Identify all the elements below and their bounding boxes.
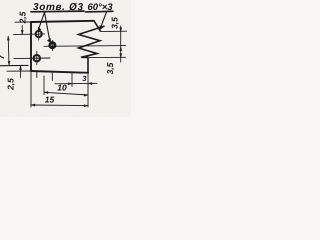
middle hole centerline vertical bbox=[51, 41, 53, 51]
dim 3 arrows bbox=[68, 82, 92, 84]
svg-text:3,5: 3,5 bbox=[109, 17, 119, 29]
top hole bbox=[36, 31, 42, 37]
ext right corner down bbox=[87, 74, 89, 107]
bottom hole crosshair bbox=[14, 52, 50, 65]
dim 7 line bbox=[7, 36, 10, 65]
leader to top hole bbox=[39, 12, 45, 29]
dim 2.5 bottom line bbox=[20, 66, 22, 78]
svg-text:3,5: 3,5 bbox=[105, 62, 115, 74]
ext bottom hole ctr down bbox=[36, 72, 38, 78]
leader from 60 note to tooth bbox=[101, 12, 107, 28]
dim 2.5 top line bbox=[21, 26, 23, 35]
ext tooth1 tip right bbox=[101, 30, 127, 32]
ext middle hole ctr down bbox=[51, 73, 53, 81]
dim 10 line bbox=[44, 92, 88, 95]
dim 3 bottom line bbox=[55, 82, 97, 85]
ext line top edge left bbox=[15, 21, 31, 23]
svg-text:10: 10 bbox=[57, 82, 67, 92]
dim 3,5 arrows bbox=[120, 28, 122, 58]
ext left edge down bbox=[30, 72, 32, 107]
dim 10 arrows bbox=[44, 91, 88, 96]
bottom hole bbox=[34, 55, 40, 61]
label 3 bottom bbox=[81, 74, 88, 82]
ext x44 down bbox=[43, 76, 45, 95]
underline of note 60 bbox=[86, 10, 114, 13]
svg-text:15: 15 bbox=[45, 95, 55, 105]
middle hole centerline horizontal bbox=[44, 45, 126, 48]
dim 7 arrows bbox=[7, 36, 10, 65]
ext shelf right bbox=[89, 56, 126, 58]
part top edge bbox=[31, 21, 94, 22]
dim 15 line bbox=[31, 104, 88, 107]
dim 15 arrows bbox=[31, 104, 88, 107]
serrated right edge: tooth 1 upper flank bbox=[94, 21, 100, 31]
dim 2.5 top arrows bbox=[21, 30, 23, 34]
ext bottom edge left bbox=[7, 70, 31, 72]
underline of note bbox=[31, 10, 84, 13]
serrated right edge: teeth profile bbox=[79, 26, 105, 73]
leader to middle hole bbox=[45, 12, 50, 41]
svg-text:2,5: 2,5 bbox=[18, 11, 28, 24]
dim 2.5 bottom arrows bbox=[19, 66, 21, 70]
part bottom edge bbox=[31, 71, 88, 73]
part left edge bbox=[30, 22, 32, 71]
top hole crosshair bbox=[14, 28, 45, 40]
ext x72 down bbox=[71, 74, 73, 87]
dim 3,5 vertical line bbox=[120, 26, 122, 62]
reference line y65.5 bbox=[0, 64, 28, 66]
svg-text:2,5: 2,5 bbox=[5, 78, 15, 91]
middle hole bbox=[50, 43, 55, 48]
